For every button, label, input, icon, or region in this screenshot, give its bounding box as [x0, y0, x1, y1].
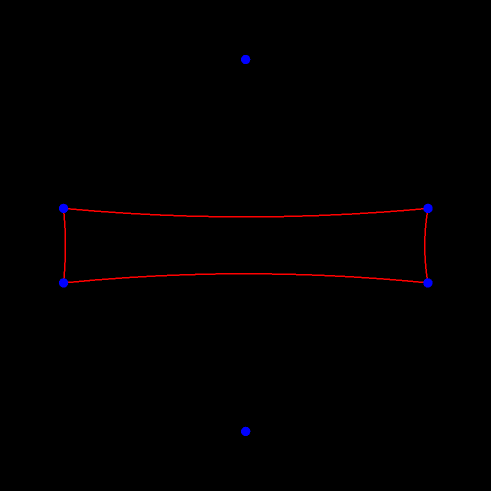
top edge curve (sags downward)	[64, 208, 428, 217]
control point top-right corner	[423, 204, 432, 213]
control point top-center	[241, 55, 250, 64]
right edge curve (bows inward)	[425, 208, 428, 283]
control point bottom-center	[241, 427, 250, 436]
control point bottom-left corner	[59, 278, 68, 287]
bottom edge curve (bows upward)	[64, 274, 428, 283]
left edge curve (bows inward)	[64, 208, 66, 283]
control point bottom-right corner	[423, 278, 432, 287]
control point top-left corner	[59, 204, 68, 213]
